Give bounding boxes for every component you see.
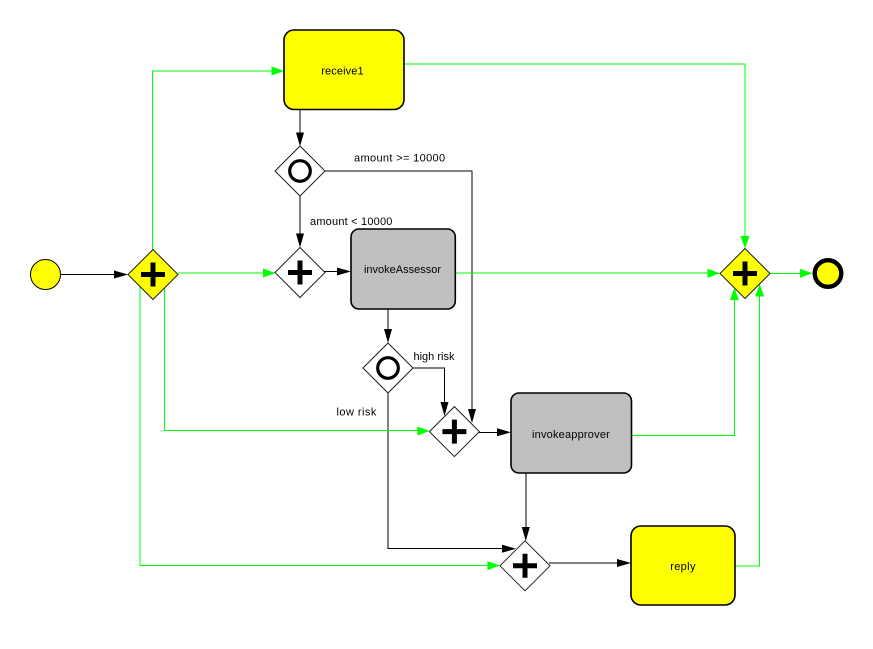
wire gateway G6 right to reply (black) [549,559,631,567]
wire gateway G2 bottom to gateway G3 (black), label amount < 10000 [296,196,393,248]
svg-text:amount < 10000: amount < 10000 [310,216,393,228]
wire gateway G1 up to receive1 (green) [152,67,284,251]
gateway G7 parallel join (yellow diamond with plus) [720,249,770,299]
wire receive1 right to gateway G7 top (green) [404,64,750,249]
gateway G3 parallel join (white diamond with plus) [275,248,325,298]
svg-text:amount >= 10000: amount >= 10000 [354,153,446,165]
wire receive1 bottom to gateway G2 (black) [296,110,304,147]
svg-text:invokeAssessor: invokeAssessor [364,264,441,276]
svg-text:low risk: low risk [337,407,377,419]
wire gateway G5 right to invokeapprover (black) [479,428,511,436]
start event (yellow circle) [31,260,61,290]
wire gateway G3 right to invokeAssessor (black) [324,268,351,276]
svg-text:high risk: high risk [414,351,455,363]
svg-text:receive1: receive1 [321,66,363,78]
gateway G1 parallel split (yellow diamond with plus) [128,250,178,300]
wire invokeAssessor bottom to gateway G4 (black) [384,309,392,343]
wire reply right to gateway G7 bottom-right (green) [735,284,764,566]
wire gateway G1 down to gateway G6 (green) [140,287,500,570]
wire gateway G1 down to gateway G5 (green) [164,288,429,436]
end event (thick black circle, yellow fill) [815,260,842,287]
gateway G5 parallel join (white diamond with plus) [429,407,479,457]
wire gateway G4 right to gateway G5, label high risk (black) [413,351,455,416]
wire gateway G2 right to gateway G5, label amount >= 10000 (black) [325,153,476,424]
svg-text:reply: reply [670,561,696,573]
wire invokeAssessor right to gateway G7 (green) [455,269,720,278]
wire start to gateway G1 (black) [61,271,128,279]
wire invokeapprover bottom to gateway G6 (black) [522,473,530,541]
wire gateway G4 bottom to gateway G6, label low risk (black) [337,393,517,553]
wire invokeapprover right to gateway G7 bottom-left (green) [632,288,739,436]
task invokeapprover (gray rounded box) [511,393,632,473]
gateway G2 exclusive (white diamond with circle) [275,146,325,196]
svg-text:invokeapprover: invokeapprover [532,429,610,441]
wire gateway G1 right to gateway G3 (green) [178,269,276,278]
gateway G4 exclusive (white diamond with circle) [363,343,413,393]
gateway G6 parallel join (white diamond with plus) [500,541,550,591]
task reply (yellow rounded box) [631,526,735,605]
task receive1 (yellow rounded box) [284,30,404,110]
wire gateway G7 right to end event (green) [770,269,813,278]
task invokeAssessor (gray rounded box) [351,229,455,309]
